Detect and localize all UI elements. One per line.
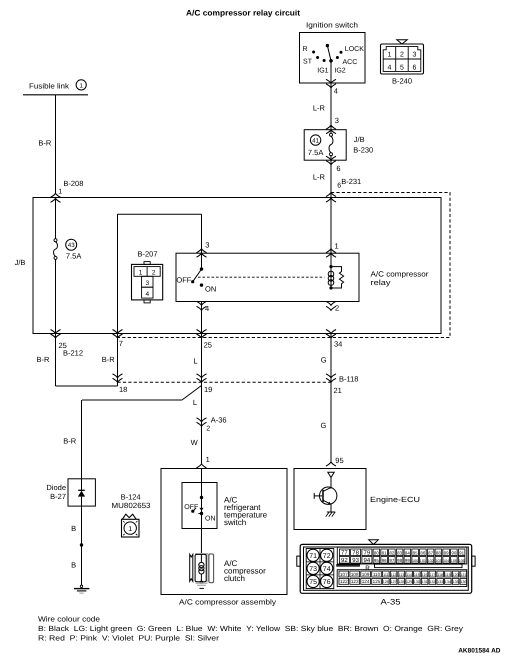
svg-text:18: 18 [119, 385, 127, 394]
connector B-118 dashed line [118, 381, 332, 383]
svg-text:90: 90 [451, 551, 456, 556]
wire label L lower [193, 398, 197, 407]
svg-text:125: 125 [373, 579, 381, 584]
svg-text:136: 136 [460, 580, 466, 584]
svg-text:112: 112 [391, 573, 397, 577]
svg-text:W: W [191, 438, 199, 447]
svg-text:94: 94 [364, 557, 371, 564]
svg-text:88: 88 [436, 551, 441, 556]
A-35 upper pin block box [337, 547, 467, 564]
svg-text:78: 78 [352, 550, 359, 557]
svg-text:4: 4 [388, 64, 392, 71]
temperature switch contact [184, 496, 215, 523]
A-35 pin row 92-106 [339, 557, 465, 565]
wire label G lower [321, 421, 327, 430]
svg-text:1: 1 [80, 82, 84, 89]
wire fusible link down (B-R) [55, 95, 57, 194]
svg-text:Engine-ECU: Engine-ECU [370, 495, 420, 504]
svg-text:2: 2 [400, 52, 404, 59]
wire colour code line 1 [38, 624, 463, 633]
svg-text:133: 133 [437, 580, 443, 584]
ignition switch box [300, 21, 366, 83]
A/C compressor relay dashed outline [118, 193, 451, 338]
junction block J/B box [33, 198, 441, 334]
svg-text:127: 127 [391, 580, 397, 584]
relay coil parallel resistor [331, 267, 344, 288]
svg-text:OFF: OFF [176, 275, 191, 284]
svg-text:B-208: B-208 [63, 179, 83, 188]
svg-text:B-R: B-R [38, 139, 52, 148]
svg-text:B-118: B-118 [339, 375, 358, 384]
svg-text:130: 130 [414, 580, 420, 584]
svg-text:1: 1 [139, 269, 143, 276]
svg-text:relay: relay [371, 278, 391, 287]
wire into assembly [201, 469, 203, 498]
A-35 center key bar [337, 564, 462, 572]
svg-text:A/C compressor relay circuit: A/C compressor relay circuit [186, 8, 300, 17]
splice dot [80, 543, 83, 546]
pin 18 [113, 374, 128, 394]
svg-text:34: 34 [334, 339, 342, 348]
svg-text:3: 3 [145, 280, 149, 287]
relay pin 2 [326, 301, 339, 312]
A-35 pin row 77-91 [339, 549, 465, 557]
svg-text:86: 86 [420, 551, 425, 556]
pin 25 B-212 [51, 330, 84, 358]
wire branch pin19 to diode [82, 386, 202, 491]
svg-text:95: 95 [374, 558, 379, 563]
fusible link 1 [23, 80, 88, 95]
wire label B lower [71, 561, 76, 570]
svg-text:103: 103 [435, 559, 441, 563]
svg-text:Diode: Diode [46, 483, 66, 492]
svg-text:116: 116 [422, 573, 428, 577]
svg-text:101: 101 [420, 559, 426, 563]
wire fuse to J/B (L-R) [330, 156, 332, 267]
svg-text:switch: switch [224, 518, 246, 527]
relay switch contact OFF/ON [176, 267, 216, 293]
A/C compressor clutch coil [190, 554, 214, 589]
fuse 41 7.5A in J/B B-230 [304, 130, 373, 161]
svg-text:L-R: L-R [313, 104, 326, 113]
svg-text:L: L [193, 357, 197, 366]
temperature switch box [182, 483, 217, 529]
svg-text:123: 123 [351, 579, 359, 584]
wire L relay to pin19 [201, 302, 203, 464]
svg-text:19: 19 [204, 385, 212, 394]
svg-text:85: 85 [413, 551, 418, 556]
svg-text:126: 126 [383, 580, 389, 584]
svg-text:AK801584 AD: AK801584 AD [458, 647, 501, 654]
relay contact/coil box [176, 253, 359, 301]
svg-text:R: Red P: Pink V: Violet PU: R: Red P: Pink V: Violet PU: Purple Sl: … [38, 633, 220, 642]
svg-text:2: 2 [152, 269, 156, 276]
svg-text:120: 120 [453, 573, 459, 577]
svg-text:121: 121 [460, 573, 466, 577]
A/C compressor clutch label [224, 559, 266, 583]
svg-text:ON: ON [205, 284, 216, 293]
svg-text:134: 134 [445, 580, 451, 584]
A/C compressor assembly box [161, 469, 287, 595]
svg-text:G: G [321, 356, 327, 365]
svg-text:99: 99 [405, 558, 410, 563]
svg-text:124: 124 [362, 579, 370, 584]
A/C compressor relay label [371, 270, 430, 288]
connector B-207 pictorial [132, 250, 163, 303]
svg-text:119: 119 [445, 573, 451, 577]
svg-text:4: 4 [205, 304, 209, 313]
ignition switch rotary contacts [303, 44, 365, 74]
svg-text:117: 117 [429, 573, 435, 577]
svg-text:ON: ON [205, 515, 216, 522]
connector A-36 pin 2 [197, 416, 227, 433]
svg-text:128: 128 [398, 580, 404, 584]
svg-text:93: 93 [352, 557, 359, 564]
svg-text:Wire colour code: Wire colour code [38, 615, 100, 624]
wire switch to clutch [200, 514, 202, 563]
svg-text:118: 118 [437, 573, 443, 577]
relay pin 1 [326, 242, 339, 258]
wire colour code line 2 [38, 633, 220, 642]
svg-text:1: 1 [335, 242, 339, 251]
relay pin 4 [197, 301, 210, 313]
A/C compressor assembly label [179, 597, 276, 606]
wire B-R pin7 to pin18 [117, 334, 119, 387]
svg-text:MU802653: MU802653 [112, 501, 151, 510]
A-35 pin row 107-121 [339, 571, 467, 577]
A-35 pin row 122-136 [339, 578, 467, 584]
ECU connector A-35 housing [297, 540, 475, 594]
wire G pin34 to ECU [330, 334, 332, 463]
wire B-R left [56, 334, 118, 387]
svg-text:71: 71 [309, 553, 317, 560]
svg-text:1: 1 [128, 526, 132, 533]
svg-text:6: 6 [336, 164, 340, 173]
svg-text:3: 3 [205, 241, 209, 250]
svg-text:7.5A: 7.5A [308, 148, 323, 157]
svg-text:B-207: B-207 [137, 250, 157, 259]
svg-text:2: 2 [335, 304, 339, 313]
svg-text:21: 21 [334, 386, 342, 395]
svg-text:3: 3 [335, 116, 339, 125]
noise filter B-124 MU802653 [112, 493, 151, 538]
svg-text:1: 1 [388, 52, 392, 59]
svg-text:5: 5 [400, 64, 404, 71]
svg-text:41: 41 [312, 138, 319, 145]
svg-text:L: L [193, 398, 197, 407]
svg-text:R: R [303, 46, 308, 53]
wire label W [191, 438, 199, 447]
relay coil [328, 265, 334, 290]
svg-text:72: 72 [323, 553, 331, 560]
svg-text:Fusible link: Fusible link [29, 81, 69, 90]
svg-text:B-230: B-230 [353, 146, 373, 155]
pin 7 [113, 330, 123, 348]
svg-text:132: 132 [429, 580, 435, 584]
wire ignition to fuse 41 [330, 61, 332, 134]
svg-text:113: 113 [398, 573, 404, 577]
A-35 lower pin block box [337, 570, 467, 587]
svg-text:129: 129 [406, 580, 412, 584]
svg-text:4: 4 [334, 87, 338, 96]
wire label G [321, 356, 327, 365]
svg-text:B-R: B-R [63, 437, 76, 446]
connector B-208 pin 1 [51, 179, 84, 202]
svg-text:B-240: B-240 [392, 77, 412, 86]
svg-text:98: 98 [397, 558, 402, 563]
wire label L-R 2 [313, 173, 326, 182]
pin 3 fuse box [326, 116, 339, 134]
fuse 43 7.5A [54, 239, 82, 261]
ground symbol diode [74, 585, 89, 593]
pin 19 [197, 374, 213, 394]
svg-text:43: 43 [68, 242, 75, 249]
svg-text:L-R: L-R [313, 173, 326, 182]
svg-text:87: 87 [428, 551, 433, 556]
pin 25 relay [197, 330, 212, 350]
diode B-27 [46, 479, 95, 506]
svg-text:Ignition switch: Ignition switch [306, 21, 358, 30]
wire inside J/B [55, 198, 57, 334]
ECU pin 95 [326, 456, 344, 466]
svg-text:91: 91 [459, 551, 464, 556]
svg-text:106: 106 [459, 559, 465, 563]
svg-text:A/C compressor assembly: A/C compressor assembly [179, 597, 276, 606]
wire label L [193, 357, 197, 366]
svg-text:B: Black LG: Light green G:: B: Black LG: Light green G: Green L: Blu… [38, 624, 463, 633]
svg-text:B-R: B-R [37, 355, 51, 364]
fuse exit pin 6 [326, 156, 341, 173]
svg-text:ACC: ACC [343, 59, 358, 66]
svg-text:79: 79 [364, 550, 371, 557]
svg-text:A-36: A-36 [211, 416, 227, 425]
svg-text:122: 122 [340, 579, 348, 584]
connector B-240 [381, 40, 424, 86]
svg-text:74: 74 [323, 566, 331, 573]
Engine-ECU transistor driver [314, 472, 337, 516]
pin 34 [326, 330, 342, 349]
wire label B-R mid [102, 355, 116, 364]
svg-text:J/B: J/B [354, 135, 365, 144]
svg-text:110: 110 [373, 572, 381, 577]
svg-text:75: 75 [309, 579, 317, 586]
A-35 large pins 71-76 [306, 549, 334, 589]
svg-text:IG1: IG1 [317, 67, 328, 74]
connector exit pin 4 [326, 79, 338, 95]
svg-text:B: B [71, 561, 76, 570]
svg-text:81: 81 [382, 551, 387, 556]
svg-text:104: 104 [443, 559, 449, 563]
svg-text:100: 100 [412, 559, 418, 563]
svg-text:97: 97 [389, 558, 394, 563]
wire pin7 vertical [117, 214, 119, 333]
svg-text:A-35: A-35 [381, 598, 402, 607]
svg-text:6: 6 [413, 64, 417, 71]
svg-text:4: 4 [145, 291, 149, 298]
svg-text:7: 7 [119, 339, 123, 348]
svg-text:clutch: clutch [224, 574, 245, 583]
svg-text:105: 105 [451, 559, 457, 563]
svg-text:73: 73 [309, 566, 317, 573]
svg-text:92: 92 [341, 557, 348, 564]
svg-text:76: 76 [323, 579, 331, 586]
A/C refrigerant temperature switch label [224, 495, 268, 527]
assembly pin 1 [197, 455, 210, 468]
relay actuation dashed line [198, 276, 324, 278]
svg-text:2: 2 [206, 425, 210, 432]
svg-text:IG2: IG2 [334, 67, 345, 74]
svg-text:OFF: OFF [184, 504, 198, 511]
svg-text:B-27: B-27 [50, 492, 66, 501]
svg-text:J/B: J/B [15, 258, 26, 267]
svg-text:LOCK: LOCK [345, 46, 364, 53]
wire jumper pin7 to relay pin3 [118, 214, 202, 269]
Engine-ECU box [294, 469, 366, 530]
svg-text:107: 107 [340, 572, 348, 577]
svg-text:B-231: B-231 [341, 177, 361, 186]
svg-text:95: 95 [335, 456, 343, 465]
wire colour code heading [38, 615, 100, 624]
wire label B-R diode [63, 437, 76, 446]
svg-text:102: 102 [428, 559, 434, 563]
pin 21 B-118 [326, 374, 358, 395]
svg-text:83: 83 [397, 551, 402, 556]
relay pin 3 [197, 241, 210, 258]
Engine-ECU label [370, 495, 420, 504]
svg-text:96: 96 [382, 558, 387, 563]
svg-text:84: 84 [405, 551, 410, 556]
svg-text:111: 111 [383, 573, 389, 577]
svg-text:3: 3 [413, 52, 417, 59]
J/B label [15, 258, 26, 267]
title [186, 8, 300, 17]
svg-text:7.5A: 7.5A [66, 252, 81, 261]
svg-text:1: 1 [58, 188, 62, 195]
svg-text:135: 135 [453, 580, 459, 584]
svg-text:B: B [71, 524, 76, 533]
svg-text:82: 82 [389, 551, 394, 556]
svg-text:1: 1 [206, 455, 210, 464]
svg-text:B-R: B-R [102, 355, 116, 364]
svg-text:109: 109 [362, 572, 370, 577]
wire label B-R [38, 139, 52, 148]
A-35 label [381, 598, 402, 607]
wire diode to ground (B) [81, 497, 83, 586]
svg-text:108: 108 [351, 572, 359, 577]
svg-text:77: 77 [341, 550, 348, 557]
svg-text:G: G [321, 421, 327, 430]
svg-text:131: 131 [422, 580, 428, 584]
wire label B upper [71, 524, 76, 533]
connector B-231 pin 6 [326, 177, 361, 202]
wire label L-R [313, 104, 326, 113]
wire label B-R left [37, 355, 51, 364]
svg-text:25: 25 [204, 340, 212, 349]
svg-text:ST: ST [303, 59, 313, 66]
document number [458, 647, 501, 654]
svg-text:80: 80 [374, 551, 379, 556]
svg-text:114: 114 [406, 573, 412, 577]
svg-text:B-212: B-212 [63, 348, 83, 357]
svg-text:115: 115 [414, 573, 420, 577]
svg-text:89: 89 [444, 551, 449, 556]
